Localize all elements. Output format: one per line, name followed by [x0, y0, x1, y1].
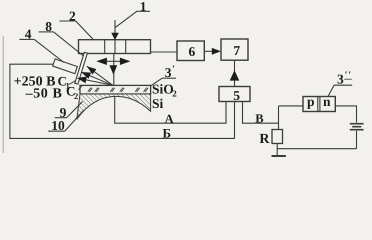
beam-to-membrane arrowhead [109, 65, 117, 74]
svg-text:7: 7 [233, 43, 240, 58]
ground bar [272, 155, 286, 157]
svg-text:R: R [259, 132, 270, 147]
resistor R [272, 130, 283, 144]
C1 C2 pointer lines [69, 81, 82, 90]
battery cell bars [350, 123, 364, 125]
svg-text:–50 В: –50 В [25, 87, 63, 102]
svg-text:Si: Si [152, 96, 164, 111]
plate 4 (tilted mirror) [53, 59, 78, 74]
svg-text:′: ′ [348, 70, 351, 81]
svg-text:SiO: SiO [152, 82, 174, 97]
label 3'' with leader [328, 79, 352, 96]
etched dome region (hatched) [77, 94, 151, 119]
reflected beam arrowhead middle [81, 72, 91, 79]
fan of reflected beams [77, 66, 113, 85]
membrane strip SiO2 [80, 85, 151, 94]
reflected beam arrowhead upper [87, 66, 97, 74]
box 7 [221, 39, 248, 60]
svg-text:1: 1 [140, 0, 147, 14]
svg-text:4: 4 [25, 27, 32, 42]
scan double-arrow left head [96, 58, 107, 65]
label 4 with leader [19, 39, 64, 62]
wire to p-n [279, 105, 304, 107]
p-n box [303, 97, 335, 112]
label 3' with leader [151, 78, 176, 86]
svg-text:2: 2 [69, 8, 76, 23]
svg-text:3: 3 [337, 72, 344, 87]
svg-text:Б: Б [163, 125, 172, 140]
svg-text:5: 5 [233, 88, 240, 103]
svg-text:А: А [165, 112, 174, 126]
svg-text:′: ′ [345, 70, 348, 81]
incident beam arrowhead [111, 33, 119, 40]
svg-text:10: 10 [51, 118, 65, 133]
wire A: box5 left output [115, 94, 226, 123]
svg-text:′: ′ [172, 64, 175, 75]
reflected beam arrowhead lower [77, 77, 87, 84]
splitter strip 8 [75, 52, 88, 84]
scan edge shading [2, 36, 4, 153]
wire B(Б): box5 middle output loop [10, 64, 235, 138]
beam below box with double arrow [106, 54, 121, 86]
svg-text:8: 8 [45, 19, 52, 34]
wire V(В): box5 right output [243, 102, 279, 124]
branch wire to battery bottom [277, 148, 356, 150]
wire R bottom [276, 144, 278, 156]
svg-text:6: 6 [189, 44, 196, 59]
wire p-n to battery [335, 106, 356, 123]
svg-text:2: 2 [172, 88, 177, 98]
arrow 5 to 7 head [230, 70, 240, 80]
svg-text:p: p [307, 94, 315, 109]
label 2 with leader [59, 21, 93, 40]
svg-text:В: В [255, 111, 263, 125]
labels 9 and 10 [48, 102, 83, 132]
box 6 [177, 41, 204, 61]
wire 7 to 5 [234, 61, 236, 87]
modulator box 2 [79, 40, 151, 54]
svg-text:2: 2 [74, 91, 78, 101]
p-n divider [317, 97, 319, 112]
strip hatch marks [88, 88, 148, 92]
svg-text:n: n [323, 94, 331, 109]
svg-text:3: 3 [165, 65, 172, 80]
arrow 6 to 7 head [212, 48, 221, 55]
wire box2 to box6 [151, 51, 178, 53]
box 5 [219, 87, 250, 102]
scan double-arrow right head [120, 58, 130, 65]
wire 6 to 7 [204, 50, 212, 52]
node riser at 278.5 [278, 106, 280, 130]
incident beam with label 1 [115, 11, 150, 33]
label 8 with leader [39, 32, 86, 58]
